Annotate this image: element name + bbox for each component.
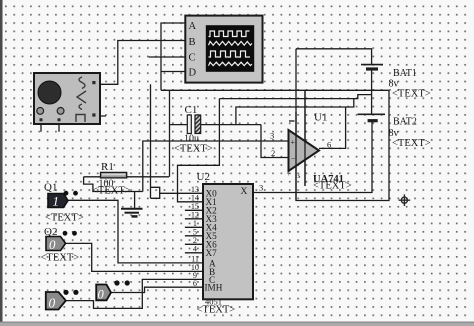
svg-text:<TEXT>: <TEXT> — [392, 138, 431, 149]
svg-text:U2: U2 — [197, 171, 210, 183]
svg-text:2: 2 — [271, 148, 275, 158]
svg-text:<TEXT>: <TEXT> — [45, 213, 84, 224]
svg-text:<TEXT>: <TEXT> — [174, 144, 213, 155]
svg-text:0: 0 — [49, 237, 56, 252]
svg-text:<TEXT>: <TEXT> — [313, 181, 352, 192]
svg-text:−: − — [291, 155, 296, 164]
svg-text:R1: R1 — [101, 161, 114, 173]
svg-text:6: 6 — [193, 279, 197, 288]
svg-text:1: 1 — [53, 194, 60, 209]
svg-text:<TEXT>: <TEXT> — [92, 186, 131, 197]
svg-text:s: s — [298, 171, 301, 180]
svg-text:U1: U1 — [314, 112, 327, 124]
svg-text:6: 6 — [327, 140, 331, 150]
svg-text:3: 3 — [270, 131, 274, 141]
svg-text:3: 3 — [259, 183, 263, 193]
svg-text:+: + — [291, 138, 296, 147]
svg-text:4: 4 — [193, 245, 197, 254]
svg-text:D: D — [189, 68, 197, 79]
svg-text:Q1: Q1 — [44, 182, 57, 194]
svg-text:Q2: Q2 — [44, 226, 57, 238]
svg-text:BAT2: BAT2 — [393, 117, 417, 128]
svg-text:X: X — [241, 187, 248, 197]
svg-text:A: A — [189, 21, 197, 32]
svg-text:X7: X7 — [206, 248, 218, 258]
svg-text:B: B — [189, 37, 196, 48]
svg-text:0: 0 — [98, 288, 105, 302]
svg-text:C: C — [189, 53, 196, 64]
svg-text:<TEXT>: <TEXT> — [41, 253, 80, 264]
svg-text:0: 0 — [49, 296, 56, 311]
svg-text:BAT1: BAT1 — [393, 68, 417, 79]
svg-text:<TEXT>: <TEXT> — [392, 89, 431, 100]
svg-text:IMH: IMH — [205, 283, 223, 293]
svg-text:C1: C1 — [185, 104, 198, 116]
svg-text:<TEXT>: <TEXT> — [197, 305, 236, 316]
svg-text:+: + — [287, 169, 291, 178]
